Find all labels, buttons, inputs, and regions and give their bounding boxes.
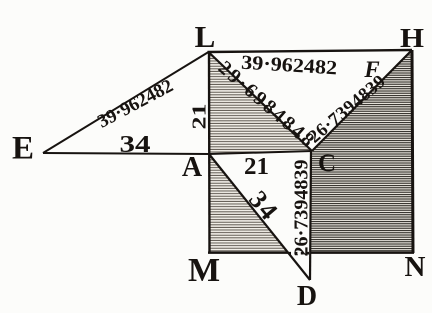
right edge H-N (412, 50, 413, 253)
left edge L-M (208, 52, 211, 253)
hatched triangle L-A-C (209, 53, 311, 153)
svg-text:E: E (12, 131, 34, 167)
vertical C-D (310, 151, 311, 280)
svg-text:L: L (195, 19, 216, 54)
line E-A (43, 153, 209, 154)
svg-text:A: A (182, 152, 203, 183)
bottom edge M-X solid (208, 251, 288, 253)
hatched region C-H-N (right of diagonals) (311, 51, 412, 252)
svg-text:26·7394839: 26·7394839 (291, 160, 313, 257)
svg-text:C: C (318, 150, 336, 177)
diagonal L-C (209, 52, 313, 151)
line E-L (43, 52, 209, 153)
diagonal A-D (209, 154, 310, 280)
svg-text:D: D (297, 281, 317, 312)
svg-text:21: 21 (189, 104, 211, 130)
svg-text:21: 21 (244, 154, 269, 180)
diagonal C-F-H (312, 51, 411, 151)
svg-text:H: H (400, 23, 424, 53)
line A-C (209, 151, 312, 154)
svg-text:M: M (188, 252, 220, 289)
hatched triangle A-M-X (209, 155, 288, 252)
svg-text:N: N (405, 251, 426, 283)
top edge L-H (208, 50, 413, 52)
svg-text:34: 34 (120, 132, 151, 158)
bottom edge vert-N solid (310, 251, 414, 253)
bottom edge X-vert dashed (288, 252, 309, 255)
